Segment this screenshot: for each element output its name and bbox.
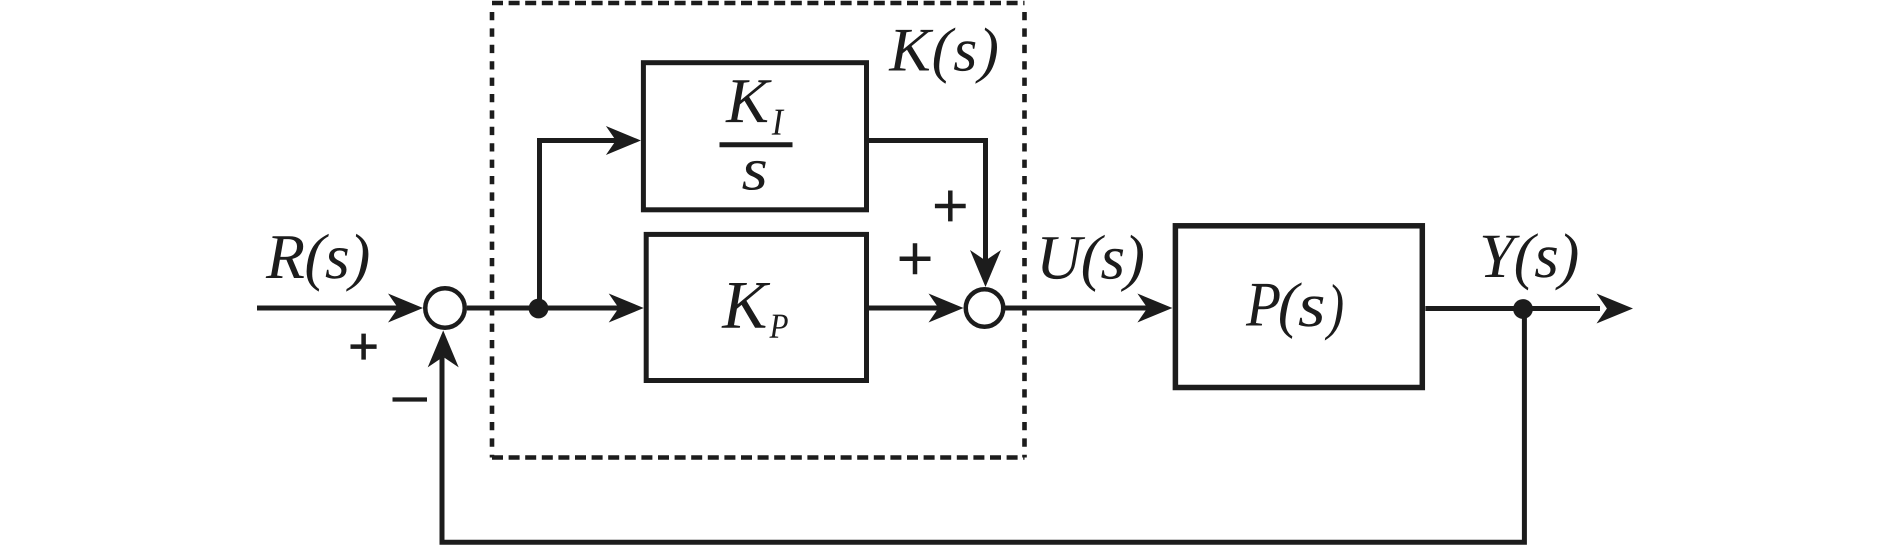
label s denominator [742, 161, 765, 190]
fraction bar KI/s [720, 142, 793, 147]
wire feedback loop [442, 309, 1524, 542]
arrowhead output Y(s) [1597, 294, 1634, 324]
node Y pickoff dot [1513, 299, 1533, 319]
arrowhead KP output into S2 [929, 294, 964, 323]
block KI/s [643, 63, 866, 210]
label K_P subscript P [769, 315, 787, 338]
plus sign KI into S2 [935, 191, 966, 222]
label U(s) [1042, 235, 1143, 292]
arrowhead into KP [609, 294, 644, 323]
arrowhead into summing junction S1 [388, 294, 423, 323]
label K_I subscript I [772, 110, 785, 135]
dashed controller box K(s) bottom edge [492, 455, 1025, 460]
wire KP output to summing2 [869, 306, 941, 311]
wire R(s) input [257, 306, 398, 311]
block KP [646, 234, 866, 380]
plus sign at R input [351, 334, 377, 360]
node A pickoff dot [529, 299, 549, 319]
plus sign KP into S2 [900, 243, 931, 274]
wire U(s) summing2 to P [1004, 306, 1150, 311]
arrowhead KI output down into S2 [970, 250, 1001, 287]
label P(s) [1246, 282, 1343, 340]
dashed controller box K(s) right edge [1022, 6, 1027, 458]
arrowhead feedback into S1 (up) [428, 330, 459, 367]
label Y(s) [1483, 233, 1578, 290]
block P(s) [1175, 226, 1422, 388]
label K(s) [889, 28, 997, 84]
summing junction S1 [425, 288, 465, 328]
dashed controller box K(s) top edge [492, 1, 1025, 6]
minus sign at feedback [393, 397, 428, 401]
label K_P main K [722, 283, 771, 328]
wire KI output to summing2 [867, 141, 986, 265]
dashed controller box K(s) left edge [490, 6, 495, 458]
label R(s) [266, 234, 369, 292]
arrowhead into P block [1137, 294, 1172, 323]
arrowhead into KI [606, 126, 641, 155]
wire P output to Y(s) arrow [1425, 306, 1600, 311]
wire summing1 to node A to KP [467, 306, 621, 311]
wire node A up-branch to KI input [540, 141, 619, 309]
label K_I numerator K [725, 80, 771, 122]
summing junction S2 [966, 289, 1004, 327]
